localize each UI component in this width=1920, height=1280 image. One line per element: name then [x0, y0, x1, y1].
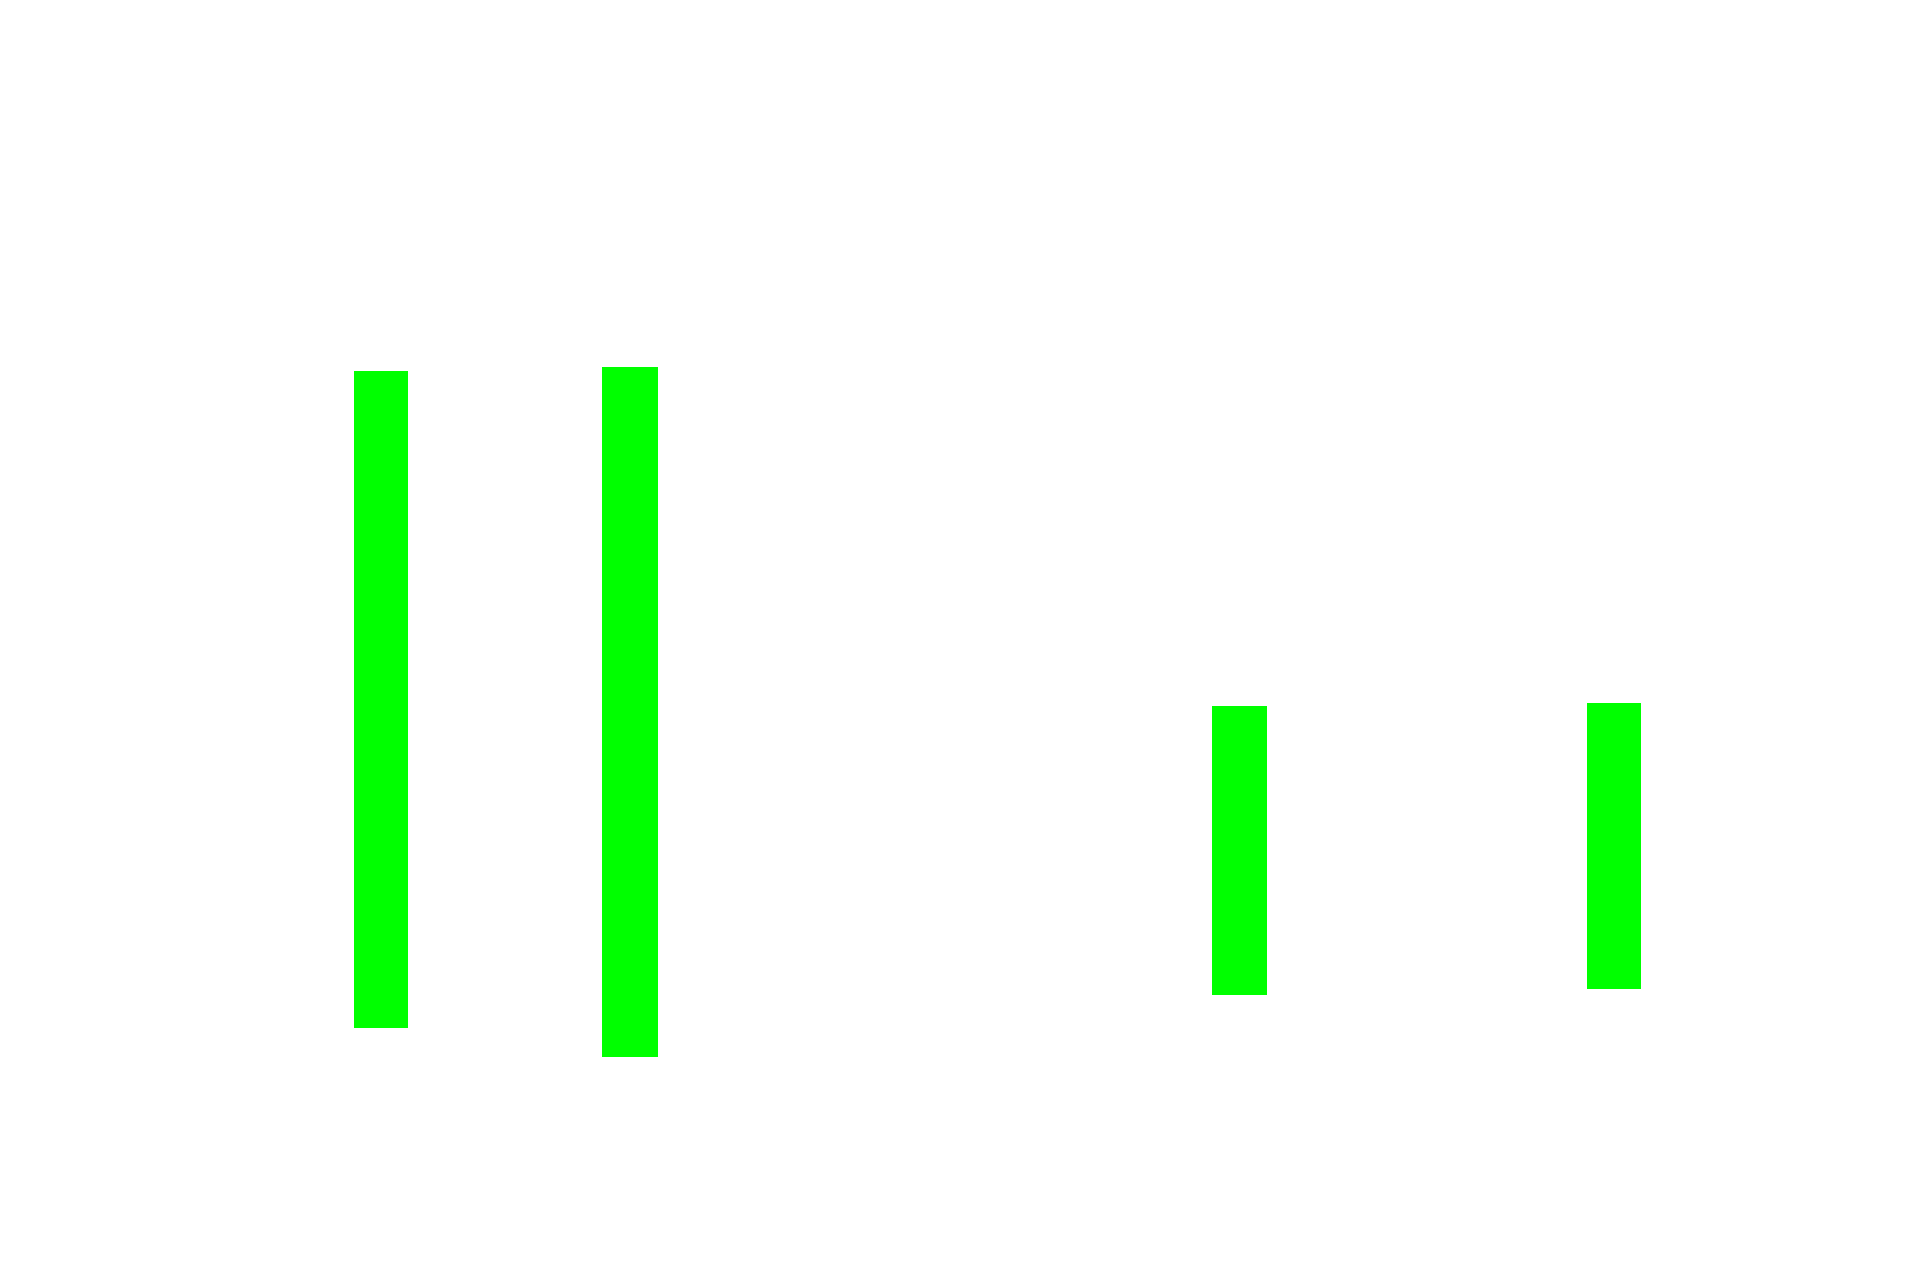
bar 1 — [354, 371, 408, 1028]
bar 4 — [1587, 703, 1641, 989]
bar 3 — [1212, 706, 1267, 995]
bar 2 — [602, 367, 658, 1057]
